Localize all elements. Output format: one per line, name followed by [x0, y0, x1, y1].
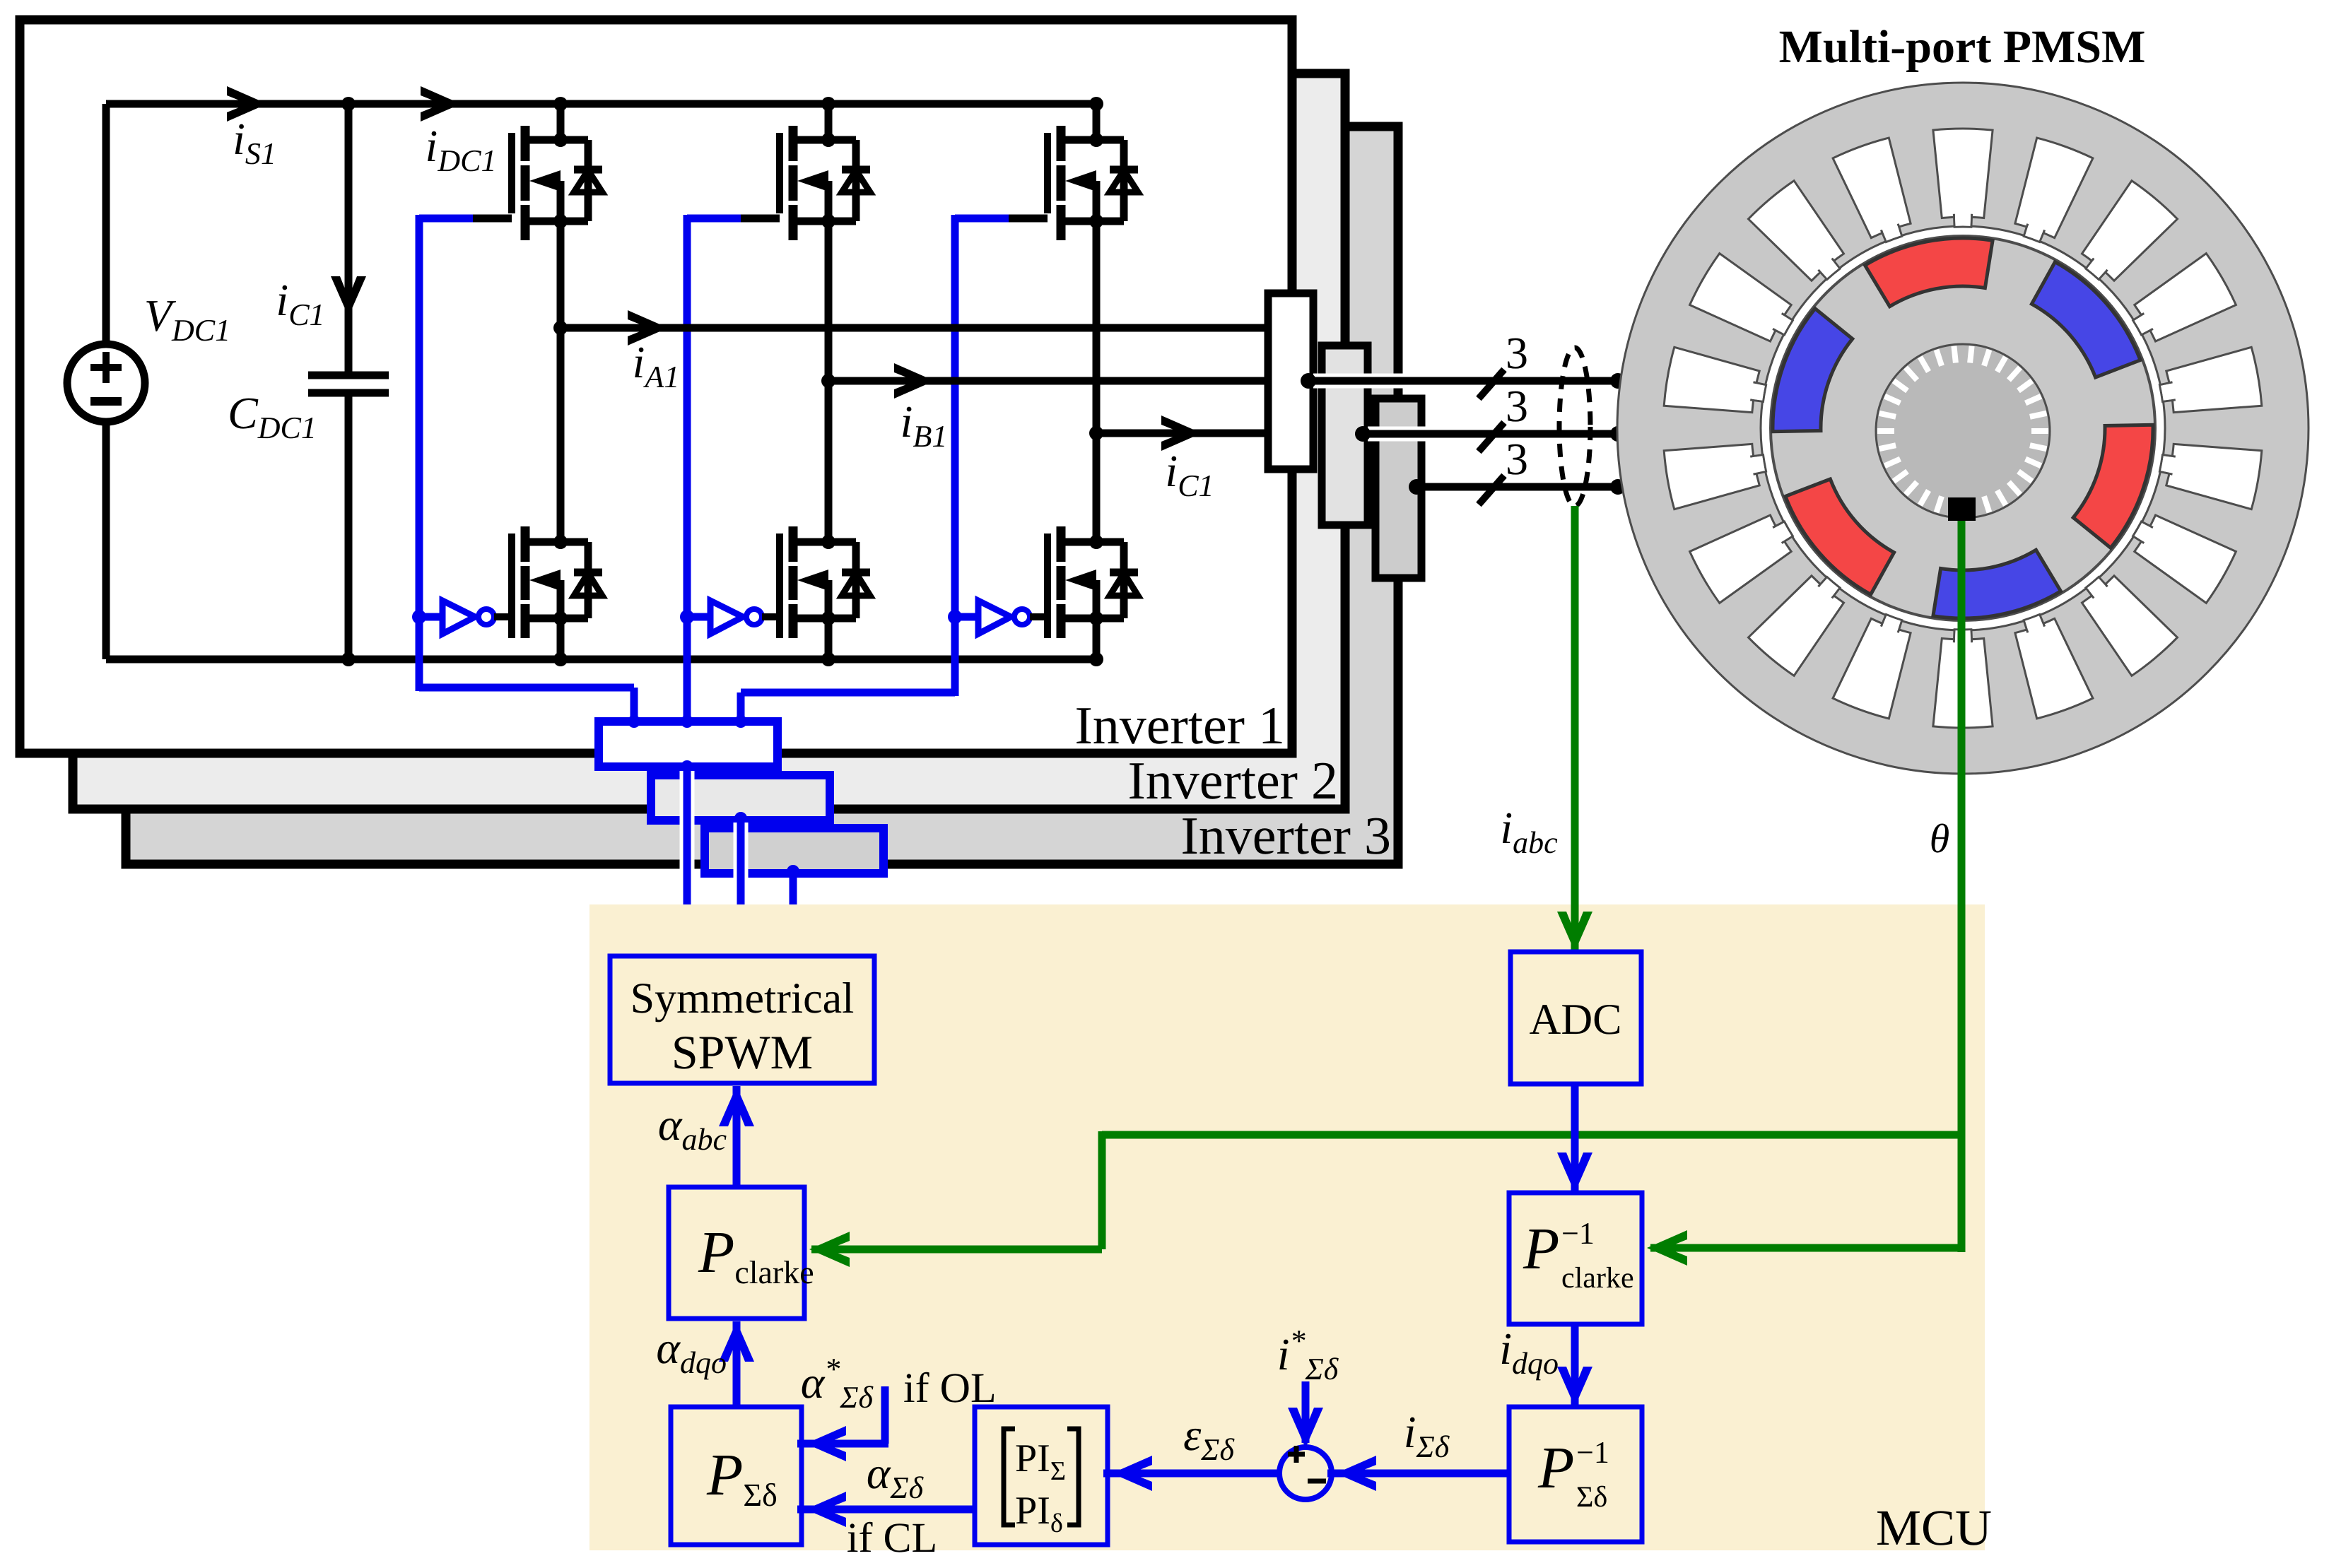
junction bus3 output — [787, 865, 799, 878]
wire motor cable 3 — [1416, 483, 1618, 491]
motor rotor — [1771, 236, 2155, 620]
wire alpha abc — [719, 1086, 754, 1187]
transistor Q3H upper MOSFET leg 3 — [1048, 104, 1124, 240]
svg-text:Symmetrical: Symmetrical — [630, 974, 855, 1022]
wire leg 1 midpoint vertical — [557, 221, 565, 542]
junction Q1L drain — [553, 535, 568, 549]
wire alpha dqo — [719, 1321, 754, 1407]
svg-text:MCU: MCU — [1876, 1499, 1992, 1556]
dashed cable bundle ellipse — [1559, 348, 1590, 506]
wire SPWM to bus1 — [684, 767, 691, 959]
junction gate net 2 — [680, 610, 694, 624]
junction Q3L drain — [1089, 535, 1103, 549]
inverter 3 enclosure box — [126, 126, 1398, 864]
svg-text:SPWM: SPWM — [671, 1025, 813, 1079]
transistor Q1L lower MOSFET leg 1 — [512, 526, 588, 659]
MCU background — [589, 904, 1985, 1550]
svg-text:if CL: if CL — [847, 1514, 937, 1561]
wire gate net leg2 upper — [687, 215, 741, 725]
voltage source VDC1 — [67, 104, 145, 659]
redraw bus1-to-SPWM wire over buses — [687, 767, 741, 959]
svg-text:iabc: iabc — [1500, 803, 1558, 860]
block inverse P sigma-delta — [1509, 1407, 1642, 1542]
wire i ref into summing — [1288, 1381, 1323, 1448]
body diode D2L — [842, 542, 870, 618]
junction cable3 ends — [1409, 479, 1424, 495]
inverter 2 enclosure box — [73, 73, 1345, 809]
junction Q2L source — [821, 611, 835, 625]
body diode D3H — [1110, 140, 1138, 221]
wire SPWM to bus2 — [737, 818, 745, 959]
junction bus1 output — [681, 760, 693, 773]
motor stator bore — [1761, 226, 2165, 630]
wire DC+ top rail — [106, 100, 1096, 108]
junction gate net 3 — [948, 610, 962, 624]
arrow iDC1 — [421, 86, 461, 122]
wire theta branch to Pclarke — [809, 1131, 1961, 1267]
wire phase B1 — [828, 377, 1268, 385]
junction Q3H source — [1089, 214, 1103, 228]
arrow iC1 phase — [1161, 415, 1202, 451]
summing junction — [1279, 1446, 1332, 1499]
svg-text:Inverter 1: Inverter 1 — [1074, 696, 1285, 755]
motor shaft — [1876, 344, 2050, 518]
svg-text:3: 3 — [1506, 434, 1528, 484]
junction Q1H source — [553, 214, 568, 228]
svg-text:−1: −1 — [1561, 1216, 1595, 1251]
junction Q1L source — [553, 611, 568, 625]
svg-text:3: 3 — [1506, 328, 1528, 378]
capacitor CDC1 — [308, 104, 389, 659]
node phase C1 — [1089, 426, 1103, 440]
motor terminal connector X1 — [1268, 293, 1313, 469]
rotor magnets — [1773, 238, 2153, 618]
wire leg 2 midpoint vertical — [825, 221, 833, 542]
bus connector J2 (inverter 2 PWM) — [651, 775, 830, 820]
transistor Q1H upper MOSFET leg 1 — [512, 104, 588, 240]
bus connector J3 (inverter 3 PWM) — [705, 828, 884, 873]
wire SPWM to bus3 — [790, 871, 797, 959]
shaft spline ticks — [1877, 346, 2048, 517]
transistor Q3L lower MOSFET leg 3 — [1048, 526, 1124, 659]
junction Q2H drain — [821, 97, 835, 111]
svg-text:Inverter 3: Inverter 3 — [1180, 806, 1391, 866]
junction bus1 inputs — [628, 715, 640, 728]
svg-text:θ: θ — [1930, 815, 1950, 861]
arrowheads into MCU from buses — [669, 902, 705, 943]
node phase A1 — [553, 321, 568, 335]
wire phase A1 — [561, 324, 1268, 332]
body diode D1H — [574, 140, 602, 221]
node phase B1 — [821, 374, 835, 388]
motor stator slots — [1664, 129, 2262, 728]
svg-text:clarke: clarke — [1561, 1262, 1634, 1295]
svg-text:if OL: if OL — [903, 1364, 997, 1411]
svg-text:P: P — [1523, 1216, 1559, 1282]
gate lead Q2H — [741, 215, 780, 223]
svg-text:Multi-port PMSM: Multi-port PMSM — [1779, 21, 2146, 73]
gate lead Q3H — [1009, 215, 1048, 223]
svg-text:P: P — [1537, 1435, 1574, 1501]
block P sigma-delta — [671, 1407, 802, 1545]
position sensor on shaft — [1948, 497, 1976, 521]
junction gate net 1 — [412, 610, 426, 624]
block PI controllers — [975, 1407, 1108, 1545]
svg-text:ADC: ADC — [1530, 996, 1622, 1044]
junction node bottom-cap — [341, 652, 356, 666]
wire iabc measurement — [1557, 506, 1592, 952]
gate lead Q1H — [473, 215, 512, 223]
motor stator yoke — [1617, 83, 2309, 774]
arrow iB1 — [894, 363, 934, 399]
junction bus2 output — [734, 812, 747, 825]
block inverse Pclarke — [1509, 1193, 1642, 1324]
block Pclarke — [669, 1187, 804, 1319]
junction Q1H drain — [553, 97, 568, 111]
block Symmetrical SPWM — [610, 956, 874, 1083]
svg-text:3: 3 — [1506, 381, 1528, 431]
bus connector J1 (inverter 1 PWM) — [599, 721, 778, 767]
body diode D1L — [574, 542, 602, 618]
wire ADC to inverse Pclarke — [1557, 1084, 1592, 1193]
transistor Q2L lower MOSFET leg 2 — [780, 526, 856, 659]
wire idqo — [1557, 1324, 1592, 1407]
body diode D3L — [1110, 542, 1138, 618]
junction cable1 ends — [1301, 373, 1316, 389]
motor terminal connector X3 — [1375, 399, 1421, 578]
inverter gate U1 NOT driver — [419, 601, 512, 634]
junction Q2L drain — [821, 535, 835, 549]
junction Q2H source — [821, 214, 835, 228]
wire phase C1 — [1096, 430, 1268, 437]
inverter gate U2 NOT driver — [687, 601, 780, 634]
arrow iS1 — [227, 86, 267, 122]
wire theta sensor — [1647, 521, 1961, 1266]
wire motor cable 1 — [1308, 374, 1618, 389]
slash 3-phase mark cable3 — [1479, 476, 1504, 505]
slash 3-phase mark cable2 — [1479, 423, 1504, 452]
junction cable2 ends — [1355, 426, 1371, 442]
wire DC- bottom rail — [106, 656, 1096, 664]
motor terminal connector X2 — [1322, 346, 1368, 525]
junction Q3L source — [1089, 611, 1103, 625]
wire motor cable 2 — [1363, 427, 1618, 442]
wire alpha sigma-delta CL — [797, 1492, 975, 1527]
wire leg 3 midpoint vertical — [1093, 221, 1101, 542]
svg-text:−1: −1 — [1576, 1435, 1609, 1470]
arrow iC1 cap — [331, 276, 366, 317]
svg-text:Σδ: Σδ — [1576, 1481, 1607, 1514]
inverter 1 enclosure box — [20, 20, 1292, 753]
inverter gate U3 NOT driver — [955, 601, 1048, 634]
slash 3-phase mark cable1 — [1479, 370, 1504, 399]
wire epsilon sigma-delta — [1103, 1456, 1279, 1491]
wire gate net leg3 upper — [741, 215, 1009, 725]
body diode D2H — [842, 140, 870, 221]
junction node top-cap — [341, 97, 356, 111]
junction Q3H drain — [1089, 97, 1103, 111]
wire i sigma-delta — [1327, 1456, 1509, 1491]
arrow iA1 — [628, 310, 668, 346]
wire gate net leg1 upper — [419, 215, 634, 725]
transistor Q2H upper MOSFET leg 2 — [780, 104, 856, 240]
svg-text:Inverter 2: Inverter 2 — [1127, 751, 1338, 810]
wire alpha ref OL — [797, 1386, 888, 1461]
block ADC — [1510, 952, 1641, 1084]
